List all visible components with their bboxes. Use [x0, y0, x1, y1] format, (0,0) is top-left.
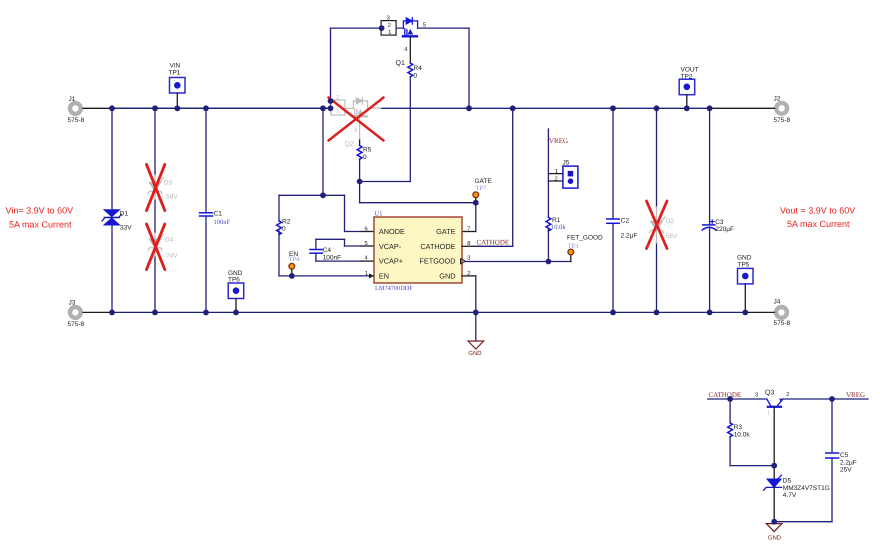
svg-text:J4: J4	[774, 299, 781, 306]
junction dots bottom rail	[109, 310, 748, 316]
diode D4 (DNP, gray)	[148, 233, 178, 260]
wire R2 branch	[279, 195, 374, 231]
svg-text:C1: C1	[214, 211, 223, 218]
svg-text:VCAP-: VCAP-	[379, 242, 402, 251]
svg-text:10.0k: 10.0k	[734, 431, 751, 438]
svg-text:0: 0	[363, 154, 367, 161]
svg-text:D3: D3	[164, 180, 173, 187]
capacitor C4	[310, 247, 341, 262]
svg-text:TP7: TP7	[476, 185, 488, 192]
annotation Vin text	[6, 205, 74, 229]
wire R3 branch	[729, 399, 731, 423]
svg-text:3: 3	[387, 14, 390, 21]
svg-text:10.0k: 10.0k	[551, 224, 566, 231]
wire Q1 source down	[409, 37, 411, 63]
connector J1	[68, 96, 85, 124]
wire bottom rail	[83, 311, 775, 313]
capacitor C1	[200, 211, 231, 227]
svg-text:MM3Z4V7ST1G: MM3Z4V7ST1G	[783, 485, 830, 492]
resistor R1	[546, 217, 566, 231]
ground bottom right	[766, 522, 782, 542]
diode D1 TVS bidirectional	[102, 210, 132, 232]
svg-text:C4: C4	[323, 247, 332, 254]
svg-text:1: 1	[336, 109, 339, 115]
connector J2	[774, 96, 791, 125]
transistor Q2 MOSFET (DNP, gray)	[345, 98, 382, 148]
svg-text:25V: 25V	[840, 467, 852, 474]
wire CATHODE net	[462, 108, 513, 246]
svg-text:C2: C2	[621, 218, 630, 225]
junction dots top rail	[109, 98, 712, 111]
svg-text:D5: D5	[783, 478, 792, 485]
svg-text:5: 5	[365, 241, 368, 247]
svg-text:58V: 58V	[166, 194, 178, 201]
connector J3	[68, 300, 85, 329]
svg-text:CATHODE: CATHODE	[420, 242, 455, 251]
diode D2 (DNP, gray)	[650, 207, 678, 243]
wire C2 column	[612, 108, 614, 312]
svg-text:2: 2	[786, 391, 789, 398]
svg-text:220µF: 220µF	[715, 226, 734, 233]
wire Q2 source to R5	[359, 140, 361, 146]
diode D5 zener	[764, 466, 830, 522]
svg-text:Vin= 3.9V to 60V: Vin= 3.9V to 60V	[6, 205, 74, 215]
capacitor C2	[607, 218, 638, 240]
test point TP7 (GATE)	[473, 178, 492, 203]
svg-text:GND: GND	[439, 271, 455, 280]
svg-text:5A max Current: 5A max Current	[9, 220, 72, 230]
svg-text:D4: D4	[165, 237, 174, 244]
annotation Vout text	[780, 205, 855, 229]
transistor Q3	[755, 390, 790, 466]
svg-text:Vout = 3.9V to 60V: Vout = 3.9V to 60V	[780, 205, 855, 215]
svg-text:FET_GOOD: FET_GOOD	[567, 234, 603, 241]
svg-text:1: 1	[767, 411, 770, 417]
svg-text:GATE: GATE	[436, 227, 455, 236]
wire R2 to EN row	[279, 231, 374, 276]
svg-text:2: 2	[388, 22, 391, 29]
svg-text:4.7V: 4.7V	[783, 492, 797, 499]
wire D2 column	[656, 108, 658, 312]
svg-text:TP4: TP4	[289, 256, 301, 263]
svg-text:CATHODE: CATHODE	[709, 391, 742, 399]
test point TP3 (FET_GOOD)	[567, 234, 603, 255]
svg-text:U1: U1	[375, 211, 383, 218]
svg-text:2: 2	[555, 175, 558, 182]
wire U1 GND to rail	[462, 276, 476, 341]
op-amp U1 LM74700 controller	[365, 211, 471, 292]
svg-text:VCAP+: VCAP+	[379, 257, 403, 266]
svg-text:0: 0	[282, 226, 286, 233]
svg-text:FETGOOD: FETGOOD	[419, 257, 455, 266]
capacitor C5	[774, 399, 857, 522]
wire Q1 drain to rail right	[418, 28, 469, 108]
red X over D3	[147, 165, 165, 211]
svg-text:C5: C5	[840, 452, 849, 459]
svg-text:EN: EN	[379, 271, 389, 280]
svg-text:R5: R5	[363, 147, 372, 154]
wire C3 column	[709, 108, 711, 312]
svg-text:33V: 33V	[120, 225, 132, 232]
wire R3 to Q3 emitter	[730, 437, 774, 466]
svg-text:4: 4	[354, 128, 358, 134]
svg-text:1: 1	[388, 30, 391, 36]
wire vertical to ANODE node	[322, 108, 324, 195]
wire top rail	[83, 107, 775, 109]
test point TP5 (GND)	[737, 255, 753, 313]
svg-text:J1: J1	[69, 96, 76, 103]
svg-text:LM74700DDF: LM74700DDF	[375, 285, 413, 292]
svg-text:575-8: 575-8	[68, 117, 85, 124]
red X over D4	[147, 224, 165, 270]
svg-text:100nF: 100nF	[214, 219, 231, 226]
svg-text:5A max Current: 5A max Current	[787, 219, 850, 229]
svg-text:24V: 24V	[166, 253, 178, 260]
svg-text:575-8: 575-8	[68, 321, 85, 328]
resistor R4	[408, 63, 422, 80]
transistor Q2 (DNP, gray) pin box	[331, 94, 353, 115]
svg-text:VOUT: VOUT	[681, 67, 699, 74]
wire D3 D4 column	[154, 108, 156, 312]
connector J5	[555, 160, 578, 189]
svg-text:CATHODE: CATHODE	[477, 239, 510, 247]
svg-text:3: 3	[755, 392, 758, 399]
wire R1 to FETGOOD	[547, 230, 549, 262]
svg-text:7: 7	[467, 226, 470, 232]
svg-text:VREG: VREG	[846, 391, 865, 399]
svg-text:3: 3	[467, 255, 470, 262]
svg-text:Q1: Q1	[396, 60, 405, 67]
connector J4	[774, 299, 791, 328]
svg-text:GATE: GATE	[475, 178, 493, 185]
svg-text:R2: R2	[282, 218, 291, 225]
svg-text:R3: R3	[734, 424, 743, 431]
transistor Q1 pin box	[381, 14, 403, 36]
svg-text:D2: D2	[666, 218, 675, 225]
wire FETGOOD net	[466, 256, 571, 262]
svg-text:575-8: 575-8	[774, 320, 791, 327]
wire Q1 gate loop left vertical	[331, 28, 382, 108]
test point TP2 (VOUT)	[679, 67, 698, 109]
resistor R3	[728, 423, 751, 438]
svg-text:2: 2	[336, 94, 339, 101]
svg-text:1: 1	[365, 271, 368, 277]
subcircuit: CATHODE stub wire	[708, 398, 767, 400]
svg-text:R4: R4	[414, 65, 423, 72]
svg-text:1: 1	[555, 169, 558, 175]
test point TP1 (VIN)	[169, 63, 186, 109]
wire D1 column	[111, 108, 113, 312]
svg-text:VIN: VIN	[170, 63, 181, 70]
svg-text:TP5: TP5	[738, 262, 750, 269]
wire R4 to gate node	[360, 77, 411, 181]
svg-text:VREG: VREG	[549, 137, 568, 145]
svg-text:0: 0	[414, 73, 418, 80]
svg-text:C3: C3	[715, 219, 724, 226]
wire Q3 to VREG	[782, 398, 868, 400]
wire C1 column	[205, 108, 207, 312]
svg-text:ANODE: ANODE	[379, 227, 405, 236]
junction dots misc	[289, 25, 551, 279]
test point TP4 (EN)	[289, 251, 301, 276]
svg-text:J2: J2	[774, 96, 781, 103]
resistor R5	[357, 146, 371, 161]
junction dots subcircuit	[727, 396, 835, 524]
svg-text:2.2µF: 2.2µF	[621, 233, 638, 240]
red X over Q2	[329, 98, 384, 141]
svg-text:58V: 58V	[666, 233, 678, 240]
wire VREG J5 R1 column	[548, 129, 563, 217]
capacitor C3 polarized	[702, 219, 734, 233]
wire R5 to gate line	[360, 159, 476, 231]
ground under U1	[468, 341, 484, 357]
svg-text:J3: J3	[69, 300, 76, 307]
svg-text:TP1: TP1	[169, 70, 181, 77]
svg-text:6: 6	[365, 225, 368, 232]
svg-text:Q3: Q3	[765, 390, 774, 397]
resistor R2	[277, 218, 291, 234]
svg-text:Q2: Q2	[345, 141, 354, 148]
svg-text:2.2µF: 2.2µF	[840, 459, 857, 466]
svg-text:GND: GND	[468, 350, 482, 357]
svg-text:4: 4	[404, 47, 408, 53]
svg-text:GND: GND	[768, 534, 782, 541]
wire C4 to VCAP pins	[316, 239, 374, 261]
svg-text:575-8: 575-8	[774, 117, 791, 124]
diode D3 (DNP, gray)	[148, 175, 178, 201]
red X over D2	[647, 201, 668, 249]
svg-text:D1: D1	[120, 211, 129, 218]
test point TP6 (GND)	[228, 270, 244, 313]
transistor Q1 MOSFET (blue)	[396, 18, 427, 67]
